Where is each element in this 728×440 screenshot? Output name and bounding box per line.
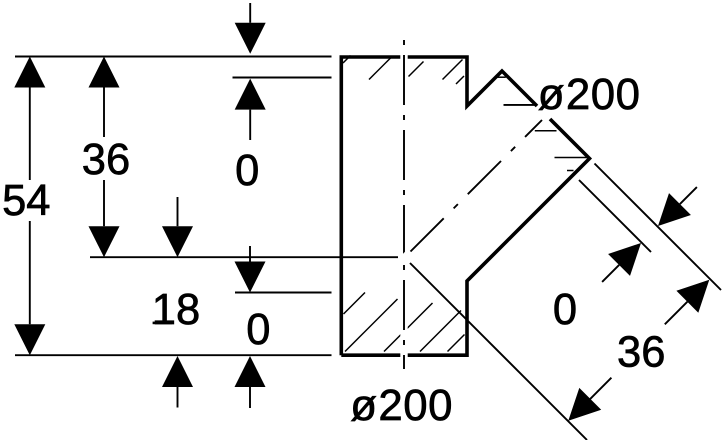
svg-text:18: 18 xyxy=(152,286,200,334)
svg-text:0: 0 xyxy=(553,286,577,334)
svg-text:0: 0 xyxy=(246,306,270,354)
svg-text:ø200: ø200 xyxy=(350,381,453,430)
svg-text:54: 54 xyxy=(2,177,50,225)
svg-text:0: 0 xyxy=(235,147,259,195)
svg-text:ø200: ø200 xyxy=(538,70,641,119)
svg-text:36: 36 xyxy=(82,136,130,184)
svg-text:36: 36 xyxy=(617,328,665,376)
